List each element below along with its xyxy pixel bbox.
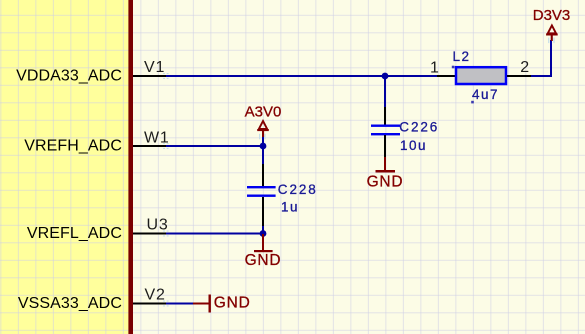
power port GND (at pin V2) bbox=[193, 295, 211, 313]
svg-text:VREFL_ADC: VREFL_ADC bbox=[27, 225, 122, 242]
power port D3V3 bbox=[546, 25, 558, 41]
svg-text:10u: 10u bbox=[400, 138, 427, 153]
wire A3V0 stub to junction bbox=[262, 136, 264, 146]
svg-text:V1: V1 bbox=[144, 59, 165, 76]
svg-text:1: 1 bbox=[430, 60, 439, 77]
wire VREFH horizontal (pin W1 to A3V0 node) bbox=[166, 145, 263, 147]
wire C226 tap vertical bbox=[384, 76, 386, 107]
svg-text:VREFH_ADC: VREFH_ADC bbox=[24, 138, 122, 155]
wire A3V0 node down to C228 bbox=[262, 146, 264, 164]
svg-text:VSSA33_ADC: VSSA33_ADC bbox=[18, 295, 122, 312]
svg-text:1u: 1u bbox=[281, 200, 299, 215]
junction at V1/C226 bbox=[382, 73, 389, 80]
svg-text:GND: GND bbox=[245, 252, 282, 269]
wire C228 bottom to VREFL node bbox=[262, 225, 264, 234]
svg-text:GND: GND bbox=[214, 295, 251, 312]
compile mark at pin/wire joint (166,303.5) bbox=[163, 301, 168, 307]
power port GND (below C226) bbox=[376, 157, 396, 173]
svg-text:V2: V2 bbox=[145, 287, 166, 304]
svg-text:W1: W1 bbox=[144, 129, 170, 146]
compile mark at pin/wire joint (166,233.5) bbox=[163, 231, 168, 237]
svg-text:U3: U3 bbox=[147, 217, 169, 234]
junction at U3/C228/GND bbox=[260, 230, 267, 237]
wire L2 pin2 to D3V3 corner bbox=[530, 40, 552, 77]
capacitor C226 bbox=[371, 107, 400, 158]
pin W1 (VREFH_ADC) bbox=[133, 145, 166, 147]
svg-text:VDDA33_ADC: VDDA33_ADC bbox=[16, 68, 122, 85]
svg-text:D3V3: D3V3 bbox=[533, 7, 571, 24]
svg-text:2: 2 bbox=[520, 59, 529, 76]
compile mark at pin/wire joint (166,146) bbox=[163, 143, 168, 149]
svg-text:4u7: 4u7 bbox=[472, 87, 499, 102]
svg-text:C228: C228 bbox=[278, 182, 318, 197]
pin V2 (VSSA33_ADC) bbox=[133, 303, 166, 305]
svg-text:GND: GND bbox=[367, 173, 404, 190]
compile mark at pin/wire joint (166,76) bbox=[163, 73, 168, 79]
L2 origin marker bbox=[452, 66, 455, 69]
component body (MCU pin bank, yellow fill) bbox=[0, 0, 129, 334]
power port A3V0 bbox=[257, 121, 269, 137]
svg-text:L2: L2 bbox=[453, 49, 471, 64]
svg-text:C226: C226 bbox=[399, 120, 439, 135]
compile marks at A3V0 stub bbox=[259, 134, 266, 140]
pin U3 (VREFL_ADC) bbox=[133, 233, 166, 235]
pin V1 (VDDA33_ADC) bbox=[133, 75, 166, 77]
junction at W1/A3V0/C228 bbox=[260, 143, 267, 150]
component body right border bbox=[128, 0, 133, 334]
wire VSSA33 (pin V2 to GND) bbox=[166, 303, 194, 305]
wire VREFL horizontal (pin U3 to C228 node) bbox=[166, 233, 263, 235]
wire VDDA33 horizontal (pin V1 to L2) bbox=[166, 75, 437, 77]
svg-text:A3V0: A3V0 bbox=[245, 103, 282, 120]
power port GND (below C228) bbox=[254, 234, 273, 252]
4u7 parameter marker bbox=[471, 101, 474, 104]
compile marks at D3V3 stub bbox=[548, 38, 555, 44]
inductor L2 bbox=[437, 67, 531, 84]
capacitor C228 bbox=[247, 164, 276, 226]
